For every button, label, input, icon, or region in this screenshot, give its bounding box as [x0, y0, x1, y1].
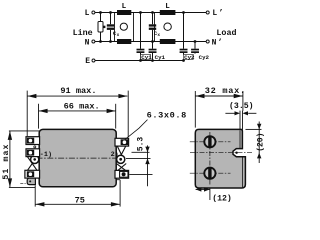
svg-text:N’: N’ — [212, 39, 224, 48]
svg-text:Load: Load — [216, 28, 236, 38]
mounting hole top — [204, 136, 215, 147]
node N' (load terminal) — [206, 39, 224, 48]
foot centerline — [20, 182, 27, 184]
junction Cy2b-N — [194, 40, 197, 43]
right X-brace lower — [117, 164, 126, 172]
wire L line top — [95, 12, 206, 14]
junction Cy1a-E — [139, 59, 142, 62]
junction Cx1-L — [109, 11, 112, 14]
left tab 1 (L) — [26, 137, 40, 145]
left tab 3 (E) — [25, 170, 40, 178]
earth stud notch (side view) — [235, 152, 237, 154]
svg-text:E: E — [85, 57, 90, 66]
capacitor Cy1a — [137, 49, 145, 53]
hole centerline top — [190, 141, 231, 143]
wire Cx2/Cy1b drop (L to N to E) — [152, 13, 154, 25]
svg-text:N: N — [85, 39, 90, 48]
svg-text:(12): (12) — [212, 193, 232, 203]
capacitor Cx1 — [107, 13, 120, 42]
junction Cy1b-E — [151, 59, 154, 62]
dimension 91 max. — [27, 86, 128, 137]
junction Cy1a-L — [139, 11, 142, 14]
label box Cy2a — [183, 54, 193, 59]
centerline front view — [37, 157, 120, 159]
dimension (3.5) — [225, 101, 256, 130]
svg-text:x: x — [117, 33, 120, 38]
wire Cy1a drop (L to E) — [140, 13, 142, 49]
svg-text:51 max: 51 max — [2, 144, 11, 180]
svg-text:Line: Line — [73, 28, 93, 38]
right tab 1 (L') — [115, 138, 129, 146]
dimension (12) — [196, 187, 232, 203]
svg-text:L’: L’ — [212, 9, 224, 18]
node L (line terminal) — [85, 9, 95, 18]
svg-text:(3.5): (3.5) — [229, 101, 254, 111]
left earth stud — [31, 155, 39, 163]
dimension 75 — [35, 180, 120, 207]
left rivet — [34, 146, 36, 148]
dimension 66 max. — [39, 101, 116, 128]
svg-text:5.3: 5.3 — [137, 137, 146, 152]
choke L1 (common-mode) — [115, 3, 134, 44]
junction Cx2-L — [151, 11, 154, 14]
wire Cy2a drop (L to E, also choke box edge) — [183, 13, 185, 49]
junction Cy2a-L — [182, 11, 185, 14]
junction resistor-N — [99, 40, 102, 43]
wire N line bottom — [95, 41, 206, 43]
svg-text:Cy1: Cy1 — [155, 54, 166, 61]
right earth stud — [117, 155, 125, 163]
filter body (side view) — [195, 129, 245, 188]
svg-text:91 max.: 91 max. — [60, 86, 96, 96]
svg-text:6.3x0.8: 6.3x0.8 — [147, 111, 187, 121]
capacitor Cy2b — [191, 49, 199, 53]
svg-text:x: x — [157, 33, 160, 38]
svg-text:32 max.: 32 max. — [205, 86, 246, 96]
label box Cy1a — [141, 54, 151, 59]
dimension 5.3 — [126, 137, 153, 187]
dimension 51 max — [2, 131, 45, 188]
capacitor Cy1b — [149, 49, 157, 53]
left mounting foot — [27, 178, 35, 184]
hole centerline vertical — [209, 132, 211, 185]
right tab 3 (N') — [115, 170, 129, 178]
node L' (load terminal) — [206, 9, 225, 18]
capacitor Cx2 — [149, 24, 161, 38]
left tab 2 (N) — [26, 149, 40, 157]
choke L2 (common-mode) — [155, 3, 176, 44]
filter body (front view) — [39, 129, 116, 186]
node E (earth terminal) — [85, 57, 95, 66]
wire E earth bus — [95, 60, 184, 62]
node N (neutral terminal) — [85, 39, 95, 48]
capacitor Cy2a — [180, 49, 188, 53]
svg-text:75: 75 — [75, 196, 85, 206]
svg-text:L: L — [122, 3, 127, 11]
flange inner line upper — [239, 130, 241, 148]
junction Cy2a-E — [182, 59, 185, 62]
junction Cx2-N — [151, 40, 154, 43]
svg-text:L: L — [165, 3, 170, 11]
mounting hole bottom — [204, 168, 215, 179]
svg-text:Cy2: Cy2 — [199, 54, 210, 61]
junction Cx1-N — [109, 40, 112, 43]
hole centerline bottom — [190, 172, 231, 174]
svg-text:(20): (20) — [256, 133, 265, 152]
right V-brace upper — [117, 146, 125, 155]
svg-text:66 max.: 66 max. — [64, 101, 100, 111]
svg-text:-1): -1) — [40, 151, 52, 159]
wire Cy2b drop (N to E) — [194, 42, 196, 49]
stud centerline — [190, 152, 253, 154]
resistor R (discharge) — [98, 13, 105, 42]
svg-text:L: L — [85, 9, 90, 18]
left X-brace — [28, 157, 38, 171]
label 6.3x0.8 with leader — [125, 111, 187, 140]
svg-text:Cy1: Cy1 — [141, 54, 152, 61]
dimension (20) — [246, 122, 266, 164]
junction resistor-L — [99, 11, 102, 14]
svg-text:Cy2: Cy2 — [184, 54, 195, 61]
flange inner line lower — [241, 157, 243, 187]
dimension 32 max. — [195, 86, 246, 128]
